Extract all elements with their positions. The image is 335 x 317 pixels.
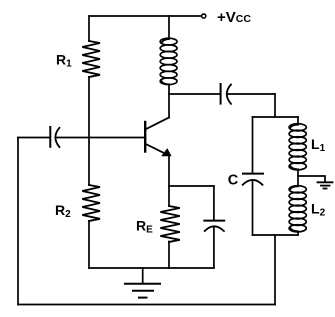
wire collector up [168,94,170,118]
svg-text:R2: R2 [55,202,71,220]
inductor RF choke [160,38,177,84]
transistor Q1 base bar [144,122,146,152]
wire choke bottom lead [168,84,170,94]
wire L2 bottom lead [297,231,299,235]
wire C bottom lead [252,181,254,235]
svg-text:L2: L2 [311,201,326,219]
wire emitter node to bypass cap [169,185,214,187]
wire emitter down [168,156,170,186]
wire bypass cap top lead [213,186,215,221]
resistor R1 [82,41,100,77]
svg-text:L1: L1 [311,136,326,154]
wire RE bottom lead [168,242,170,269]
transistor Q1 emitter diagonal with arrow [146,144,171,156]
wire R1 top lead [88,16,90,41]
svg-text:R1: R1 [56,52,72,70]
wire collector node to coupling cap [169,93,220,95]
svg-text:+VCC: +VCC [217,9,251,26]
wire feedback bottom [18,304,275,306]
ground main stem [142,268,144,284]
wire cap to tank [227,93,275,95]
capacitor input coupling [50,127,59,147]
ground main [125,284,160,298]
wire R2 bottom lead [88,221,90,268]
wire C top lead [252,117,254,174]
wire input to cap [18,137,50,139]
wire feedback down [274,235,276,305]
capacitor C [243,174,263,185]
inductor L1 [289,124,306,170]
terminal +Vcc [202,14,206,18]
svg-text:C: C [228,173,239,189]
wire L1 bottom lead to tap [297,169,299,176]
resistor R2 [82,185,100,221]
wire input left rail [17,138,19,305]
inductor L2 [289,186,306,232]
transistor Q1 collector diagonal [146,118,169,130]
capacitor coupling (output) [221,84,231,104]
wire choke top lead [168,16,170,39]
wire tap to ground [298,176,325,182]
wire L1 top lead [297,117,299,125]
wire L2 top lead [297,176,299,186]
wire RE top lead [168,186,170,205]
wire tank feed down [274,94,276,117]
capacitor bypass [204,221,224,231]
ground tap [318,182,333,188]
wire cap to base [56,137,145,139]
wire tank bottom [253,234,299,236]
wire bypass cap bottom lead [213,227,215,268]
resistor RE [160,206,179,242]
wire top rail [89,15,202,17]
wire R1-R2 segment [88,77,90,185]
svg-text:RE: RE [136,218,153,236]
wire bottom rail [89,267,214,269]
wire tank top [253,116,299,118]
